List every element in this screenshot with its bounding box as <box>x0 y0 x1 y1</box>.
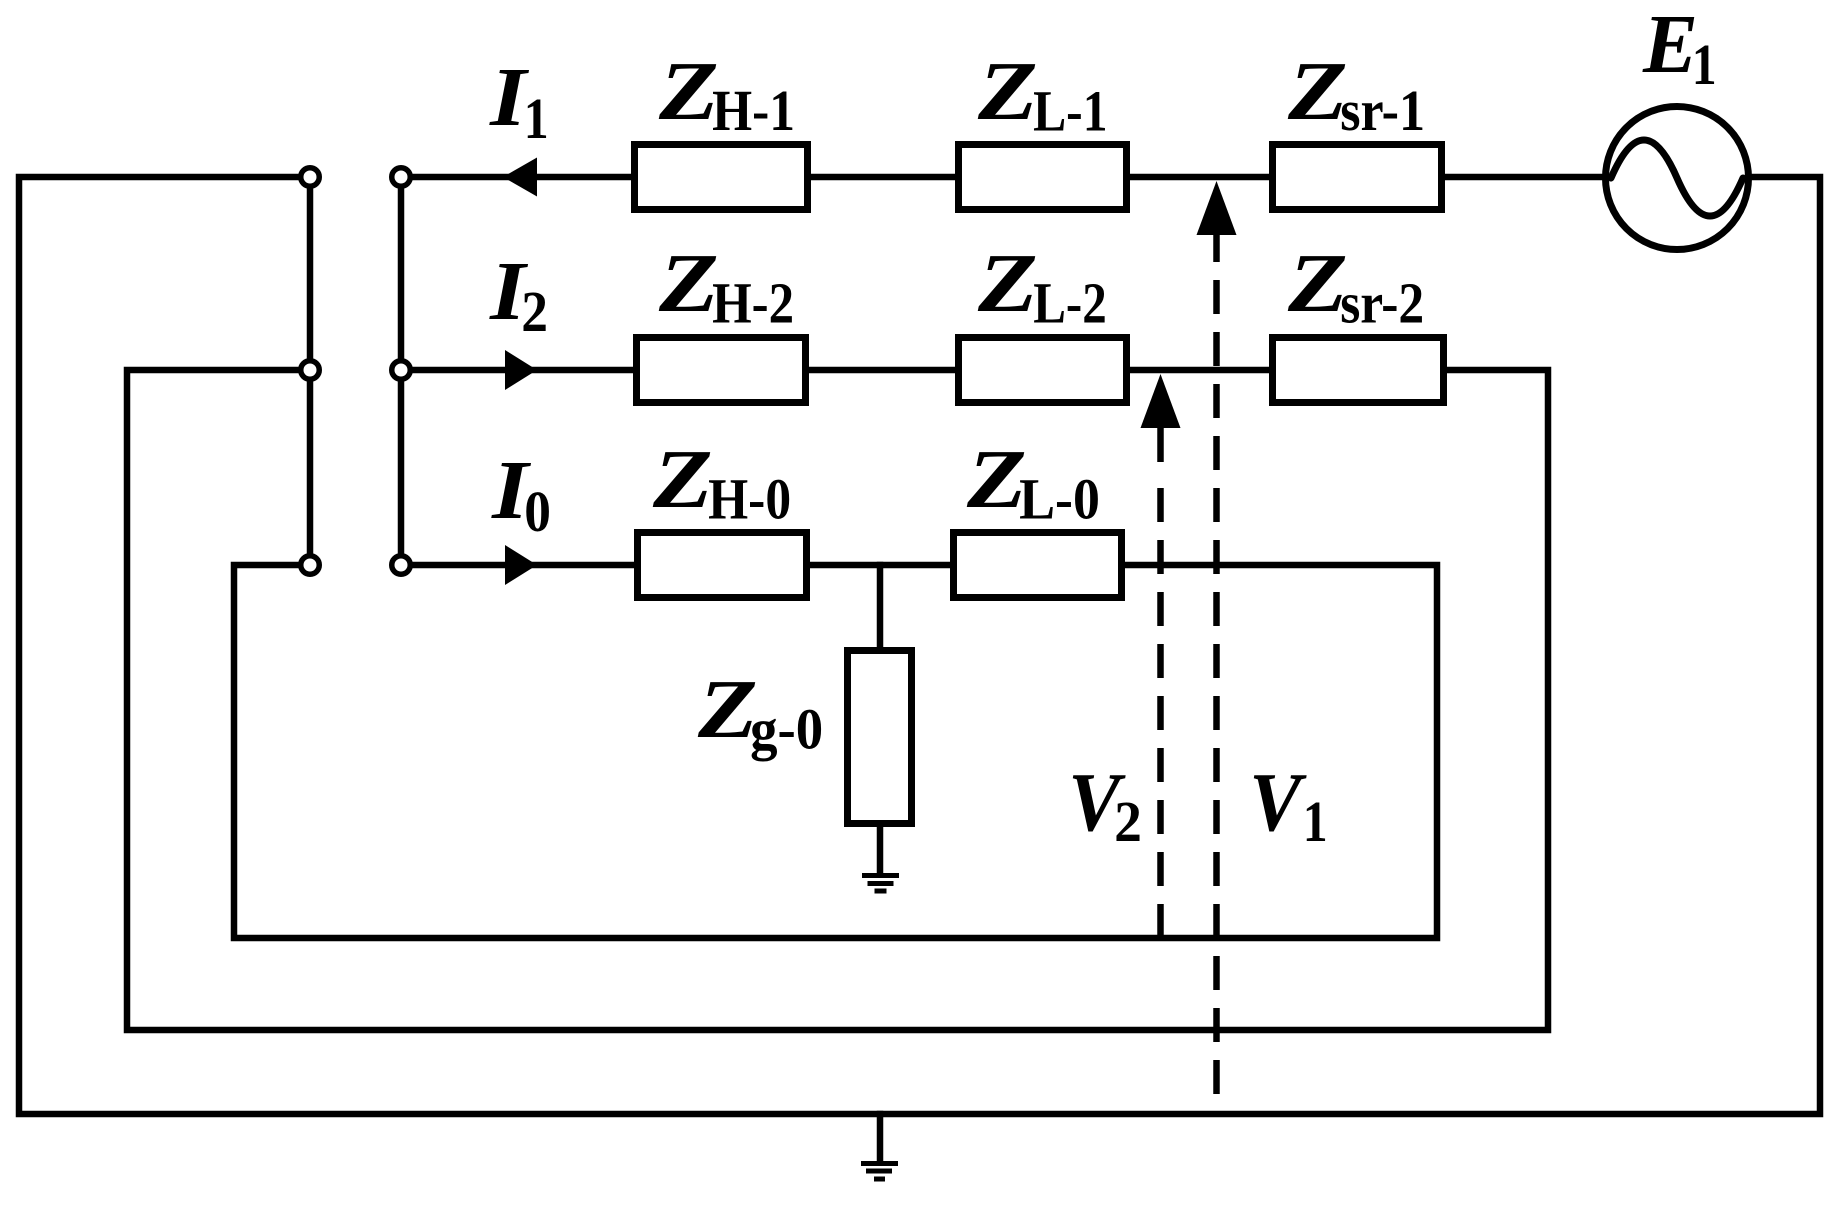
wire row1 ZL-1 to Zsr-1 <box>1130 174 1269 181</box>
svg-text:H-1: H-1 <box>712 78 795 143</box>
arrow I2 (points right) <box>505 350 537 390</box>
svg-text:0: 0 <box>524 479 551 544</box>
svg-text:Z: Z <box>1287 237 1348 330</box>
svg-text:E: E <box>1642 0 1698 91</box>
wire row0 ZH-0 to ZL-0 (junction to Zg-0) <box>810 562 950 569</box>
resistor ZH-1 <box>635 145 808 210</box>
svg-text:L-2: L-2 <box>1033 271 1107 336</box>
svg-text:Z: Z <box>658 45 719 138</box>
wire right terminal bus <box>398 177 405 565</box>
svg-text:V: V <box>1249 756 1307 849</box>
node V1 arrow <box>1197 181 1237 235</box>
svg-text:L-0: L-0 <box>1019 467 1100 532</box>
ground (Zg-0) <box>862 876 899 892</box>
terminal row1 left <box>301 168 320 187</box>
resistor ZH-2 <box>637 338 806 403</box>
svg-text:H-0: H-0 <box>708 467 791 532</box>
arrow I1 (points left) <box>503 158 537 197</box>
node V2 arrow tail <box>1157 428 1164 462</box>
node V1 dashed measurement line <box>1213 280 1220 1114</box>
node V1 arrow tail <box>1213 235 1220 262</box>
wire row1 terminal to ZH-1 <box>412 174 631 181</box>
resistor ZH-0 <box>638 533 807 598</box>
wire row2 ZL-2 to Zsr-2 <box>1130 367 1269 374</box>
resistor ZL-2 <box>959 338 1127 403</box>
svg-text:Z: Z <box>977 237 1038 330</box>
svg-text:sr-1: sr-1 <box>1340 78 1425 143</box>
node V2 dashed measurement line <box>1157 488 1164 938</box>
node V2 arrow <box>1141 374 1181 428</box>
svg-text:H-2: H-2 <box>712 271 794 336</box>
resistor ZL-0 <box>954 533 1122 598</box>
svg-text:Z: Z <box>977 45 1038 138</box>
wire row2 terminal to ZH-2 <box>412 367 633 374</box>
terminal row2 right <box>392 361 411 380</box>
wire Zg-0 branch down from row0 junction <box>877 565 884 650</box>
svg-text:L-1: L-1 <box>1033 79 1107 144</box>
arrow I0 (points right) <box>505 545 537 585</box>
source E1 <box>1606 107 1749 250</box>
svg-text:Z: Z <box>658 237 719 330</box>
wire inner loop (row 0 return: ZL-0 right, right side, bottom, left side, to terminal) <box>234 565 1437 938</box>
ground (system, bottom) <box>861 1164 898 1180</box>
resistor Zg-0 <box>848 651 912 824</box>
svg-text:Z: Z <box>966 433 1027 526</box>
resistor ZL-1 <box>959 145 1127 210</box>
svg-text:Z: Z <box>1287 45 1348 138</box>
terminal row2 left <box>301 361 320 380</box>
wire outer loop (row 1 return: E1 right, right side, bottom, left side, to terminal) <box>19 177 1820 1114</box>
resistor Zsr-1 <box>1273 145 1442 210</box>
svg-text:1: 1 <box>1303 789 1328 854</box>
wire left terminal bus <box>307 177 314 565</box>
wire row0 terminal to ZH-0 <box>412 562 634 569</box>
terminal row0 left <box>301 556 320 575</box>
terminal row1 right <box>392 168 411 187</box>
wire row2 ZH-2 to ZL-2 <box>809 367 955 374</box>
wire bottom ground stub <box>877 1114 884 1161</box>
svg-text:sr-2: sr-2 <box>1340 271 1424 336</box>
source E1 sine <box>1611 140 1743 216</box>
wire middle loop (row 2 return: Zsr-2 right, right side, bottom, left side, to terminal) <box>127 370 1548 1030</box>
wire row1 Zsr-1 to E1 <box>1445 174 1605 181</box>
svg-text:2: 2 <box>521 279 548 344</box>
svg-text:Z: Z <box>652 433 713 526</box>
svg-text:2: 2 <box>1114 789 1142 854</box>
svg-text:Z: Z <box>697 663 758 756</box>
svg-text:1: 1 <box>524 86 549 151</box>
terminal row0 right <box>392 556 411 575</box>
svg-text:1: 1 <box>1692 32 1717 97</box>
svg-text:g-0: g-0 <box>750 697 823 762</box>
wire row1 ZH-1 to ZL-1 <box>811 174 955 181</box>
wire Zg-0 box to ground <box>877 824 884 873</box>
resistor Zsr-2 <box>1273 338 1444 403</box>
